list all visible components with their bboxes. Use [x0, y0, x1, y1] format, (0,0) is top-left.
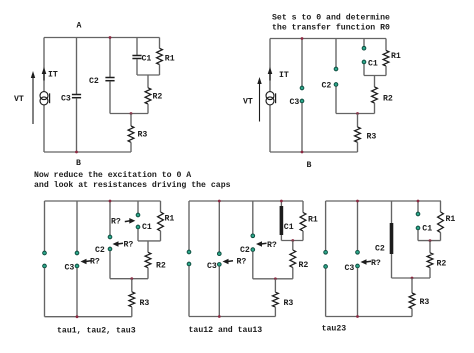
wire R2 bottom stub [429, 268, 431, 278]
open terminal source top [324, 250, 328, 254]
svg-text:C3: C3 [61, 94, 71, 103]
junction C1/top bus [417, 200, 420, 203]
wire R2 bottom stub [147, 104, 149, 114]
wire R3 top stub [130, 114, 132, 127]
resistor R1 [383, 51, 389, 67]
open terminal C3 bottom [300, 99, 304, 103]
resistor R3 [355, 127, 361, 142]
svg-text:R?: R? [371, 259, 381, 268]
svg-text:R3: R3 [284, 299, 294, 308]
resistor R2 [372, 87, 378, 103]
svg-text:VT: VT [14, 95, 24, 104]
wire C1 branch (shorted) [280, 201, 282, 241]
junction C3/top bus [218, 200, 221, 203]
resistor R2 [427, 253, 433, 268]
wire R3 bottom stub [130, 142, 132, 152]
svg-text:C3: C3 [345, 264, 355, 273]
open terminal source bottom [324, 265, 328, 269]
wire top bus [45, 200, 161, 202]
svg-text:B: B [307, 161, 312, 170]
wire C3 branch lower [218, 266, 220, 316]
wire C1-R1 bottom bar [138, 240, 161, 242]
svg-text:the transfer function R0: the transfer function R0 [272, 23, 390, 33]
open terminal source top [187, 250, 191, 254]
wire R2 top stub [374, 76, 376, 88]
svg-text:R1: R1 [308, 215, 318, 224]
resistor R2 [145, 88, 151, 104]
capacitor C1 [132, 55, 141, 57]
svg-text:C1: C1 [142, 54, 152, 63]
svg-text:R2: R2 [299, 261, 309, 270]
junction C3/bottom bus [301, 151, 304, 154]
svg-text:and look at resistances drivin: and look at resistances driving the caps [34, 180, 231, 190]
wire R1 bottom stub [160, 231, 162, 241]
open terminal C3 top [75, 251, 79, 255]
resistor R3 [409, 293, 415, 309]
wire C1-R1 bottom bar [281, 240, 303, 242]
wire C1 branch lower [363, 64, 365, 76]
svg-text:R2: R2 [153, 93, 163, 102]
IT current arrow [268, 67, 273, 74]
svg-text:R?: R? [90, 257, 100, 266]
wire bottom bus [189, 316, 275, 318]
svg-text:A: A [77, 21, 82, 30]
open terminal C2 bottom [334, 83, 338, 87]
current source symbol [40, 92, 48, 100]
R? arrow at C3 [361, 259, 367, 265]
open terminal C2 top [251, 234, 255, 238]
wire R2 bottom stub [374, 103, 376, 114]
svg-text:IT: IT [48, 71, 58, 80]
junction C3/top bus [301, 37, 304, 40]
svg-text:R2: R2 [437, 260, 447, 269]
wire C2 branch lower [252, 252, 254, 279]
wire R3 top stub [131, 279, 133, 292]
wire top bus [326, 200, 441, 202]
open terminal C3 top [300, 86, 304, 90]
wire bottom bus (node B) [270, 151, 358, 153]
wire R1 top stub [302, 201, 304, 213]
wire R1 top stub [440, 201, 442, 212]
svg-text:R3: R3 [420, 298, 430, 307]
wire R1 top stub [385, 39, 387, 51]
open terminal C1 bottom [136, 225, 140, 229]
wire R3 bottom stub [131, 307, 133, 317]
junction C1/top bus [280, 200, 283, 203]
junction R3/bar [274, 277, 277, 280]
wire C2 branch lower [335, 87, 337, 114]
wire C2-R2 bottom bar [253, 278, 293, 280]
R? arrow at C3 [81, 259, 87, 265]
wire R2 top stub [292, 241, 294, 251]
svg-text:C2: C2 [240, 246, 250, 255]
junction R3/bar [130, 277, 133, 280]
junction C3/bottom bus [356, 315, 359, 318]
wire C2 branch upper [109, 201, 111, 235]
wire R2 top stub [429, 241, 431, 253]
R? arrow at C1 [129, 218, 135, 224]
VT voltage arrow [32, 77, 34, 124]
svg-text:B: B [76, 159, 81, 168]
wire C2 branch lower [109, 81, 111, 113]
R? arrow at C2 [256, 241, 262, 247]
svg-text:R1: R1 [165, 215, 175, 224]
svg-text:R3: R3 [140, 299, 150, 308]
wire left branch upper [44, 201, 46, 251]
svg-text:R1: R1 [165, 54, 175, 63]
open terminal C2 top [334, 67, 338, 71]
wire top bus [270, 38, 386, 40]
svg-text:C2: C2 [89, 77, 99, 86]
open terminal C3 top [217, 252, 221, 256]
resistor R3 [129, 292, 135, 307]
svg-text:C3: C3 [290, 98, 300, 107]
wire C3 branch upper [76, 201, 78, 251]
junction C3/bottom bus [218, 315, 221, 318]
resistor R3 [128, 126, 134, 142]
R? arrow at C2 [113, 241, 119, 247]
wire bottom bus (node B) [44, 151, 131, 153]
wire R3 top stub [274, 279, 276, 292]
open terminal C3 bottom [217, 263, 221, 267]
svg-text:IT: IT [279, 71, 289, 80]
svg-text:VT: VT [243, 97, 253, 106]
open terminal C1 top [416, 212, 420, 216]
wire left branch lower [44, 268, 46, 317]
wire left branch lower [188, 266, 190, 317]
current source symbol [266, 92, 274, 100]
junction R3/bar [130, 112, 133, 115]
wire R3 bottom stub [357, 142, 359, 152]
wire C1 branch lower [136, 59, 138, 75]
wire R1 top stub [159, 38, 161, 49]
short bar C1 [280, 206, 284, 235]
svg-text:C1: C1 [368, 60, 378, 69]
open terminal C1 bottom [362, 60, 366, 64]
wire C1-R1 bottom bar [364, 75, 386, 77]
svg-text:C1: C1 [422, 225, 432, 234]
wire C3 branch upper [218, 201, 220, 252]
resistor R1 [157, 48, 163, 64]
wire R3 bottom stub [274, 307, 276, 316]
wire C2-R2 bottom bar [392, 277, 431, 279]
svg-text:Now reduce the excitation to 0: Now reduce the excitation to 0 A [34, 170, 191, 180]
svg-text:R?: R? [267, 241, 277, 250]
resistor R1 [158, 212, 164, 231]
wire R2 top stub [147, 241, 149, 252]
junction R3/bar [411, 277, 414, 280]
VT voltage arrow [259, 83, 261, 122]
wire C3 branch upper [76, 38, 78, 95]
svg-text:R2: R2 [383, 94, 393, 103]
wire left branch upper [325, 201, 327, 250]
wire C3 branch upper [301, 39, 303, 87]
svg-text:R?: R? [111, 218, 121, 227]
open terminal source bottom [43, 264, 47, 268]
svg-text:C2: C2 [95, 246, 105, 255]
open terminal C3 bottom [356, 264, 360, 268]
wire top bus [189, 200, 303, 202]
wire R1 bottom stub [385, 66, 387, 76]
svg-text:C3: C3 [207, 262, 217, 271]
resistor R2 [145, 252, 151, 267]
wire R3 top stub [411, 278, 413, 293]
wire bottom bus [326, 316, 412, 318]
wire R2 bottom stub [147, 268, 149, 279]
svg-text:tau1, tau2, tau3: tau1, tau2, tau3 [57, 326, 136, 335]
wire R1 bottom stub [302, 231, 304, 241]
open terminal source top [43, 251, 47, 255]
svg-text:R1: R1 [391, 52, 401, 61]
wire C2 branch (shorted) [391, 201, 393, 278]
svg-text:C2: C2 [375, 244, 385, 253]
wire C1 stub [363, 39, 365, 47]
wire C2 branch upper [109, 38, 111, 78]
svg-text:R1: R1 [446, 215, 456, 224]
wire C3 branch lower [76, 268, 78, 317]
wire left branch upper [188, 201, 190, 250]
svg-text:tau23: tau23 [322, 325, 347, 334]
svg-text:tau12 and tau13: tau12 and tau13 [189, 325, 263, 335]
wire C2 branch upper [252, 201, 254, 234]
svg-text:R?: R? [124, 241, 134, 250]
junction R2/bar [429, 239, 432, 242]
R? arrow at C3 [223, 259, 229, 265]
wire R1 bottom stub [159, 65, 161, 76]
wire left branch [269, 39, 271, 153]
junction C2/top bus [109, 36, 112, 39]
open terminal source bottom [187, 262, 191, 266]
wire C1 stub [137, 201, 139, 213]
resistor R3 [273, 292, 279, 307]
resistor R1 [438, 212, 444, 233]
wire R2 bottom stub [292, 268, 294, 279]
wire R3 top stub [357, 114, 359, 128]
wire C1 stub [417, 201, 419, 212]
svg-text:R?: R? [237, 258, 247, 267]
wire bottom bus [45, 316, 132, 318]
IT current arrow [42, 67, 47, 74]
junction R2/bar [291, 239, 294, 242]
wire C2-R2 bottom bar [110, 278, 148, 280]
open terminal C1 bottom [416, 226, 420, 230]
junction C2/top bus [109, 200, 112, 203]
wire C2 branch lower [109, 251, 111, 279]
svg-text:R3: R3 [367, 132, 377, 141]
wire C3 branch lower [357, 268, 359, 317]
svg-text:Set s to 0 and determine: Set s to 0 and determine [272, 13, 390, 23]
wire C3 branch lower [76, 98, 78, 152]
capacitor C3 [72, 94, 81, 96]
wire R3 bottom stub [411, 309, 413, 317]
open terminal C2 top [108, 235, 112, 239]
svg-text:R3: R3 [138, 130, 148, 139]
wire C1-R1 bottom bar [418, 240, 441, 242]
junction C3/bottom bus [75, 151, 78, 154]
junction C3/top bus [356, 200, 359, 203]
wire left branch [43, 38, 45, 153]
open terminal C3 top [356, 250, 360, 254]
wire C2-R2 bottom bar [336, 113, 375, 115]
short bar C2 [390, 223, 394, 254]
wire C2-R2 bottom bar [110, 113, 148, 115]
resistor R2 [290, 250, 296, 268]
svg-text:R2: R2 [156, 261, 166, 270]
open terminal C1 top [136, 213, 140, 217]
wire C3 branch lower [301, 103, 303, 152]
wire C1 branch upper [136, 38, 138, 56]
capacitor C2 [105, 77, 114, 79]
wire R1 top stub [160, 201, 162, 212]
wire left branch lower [325, 269, 327, 317]
svg-text:C3: C3 [65, 264, 75, 273]
junction C3/bottom bus [76, 315, 79, 318]
wire C2 branch upper [335, 39, 337, 68]
svg-text:C1: C1 [284, 223, 294, 232]
open terminal C2 bottom [108, 247, 112, 251]
open terminal C3 bottom [75, 264, 79, 268]
wire R2 top stub [147, 75, 149, 88]
wire C1-R1 bottom bar [137, 74, 160, 76]
wire C1 branch lower [137, 229, 139, 241]
wire top bus (node A) [44, 37, 160, 39]
resistor R1 [300, 213, 306, 232]
open terminal C1 top [362, 46, 366, 50]
svg-text:C1: C1 [142, 223, 152, 232]
junction R3/bar [356, 112, 359, 115]
wire C1 branch lower [417, 230, 419, 241]
wire C3 branch upper [357, 201, 359, 250]
open terminal C2 bottom [251, 248, 255, 252]
wire R1 bottom stub [440, 233, 442, 241]
svg-text:C2: C2 [322, 81, 332, 90]
